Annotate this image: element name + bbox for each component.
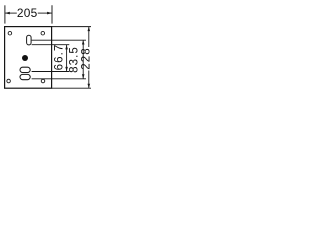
dimension 205 extension left [4, 5, 6, 23]
feature line stadium 1 [32, 71, 70, 73]
dimension 205 line right segment [38, 12, 52, 14]
hole top-left [8, 31, 12, 35]
center knockout dot [22, 55, 28, 61]
slot stadium 1 [20, 67, 30, 72]
arrow 205 right [47, 12, 52, 15]
svg-text:83.5: 83.5 [68, 46, 80, 73]
svg-text:228: 228 [81, 47, 93, 70]
arrow 205 left [5, 12, 10, 15]
feature line slot center [32, 39, 86, 41]
hole top-right [41, 31, 45, 35]
dimension 66.7 line [66, 45, 68, 72]
slot stadium 2 [20, 74, 30, 79]
arrow 228 top [88, 27, 91, 31]
vertical slot [27, 35, 32, 45]
dimension 228 line upper segment [88, 27, 90, 47]
dimension 205 line left segment [5, 12, 17, 14]
arrow 228 bottom [88, 84, 91, 88]
feature line stadium 2 [32, 78, 86, 80]
feature line slot bottom [32, 44, 70, 46]
arrow 83.5 bottom [82, 74, 85, 78]
extension line bottom edge right [52, 87, 91, 89]
extension line top edge right [52, 26, 91, 28]
dimension 83.5 line [82, 40, 84, 79]
hole bottom-left [7, 79, 11, 83]
arrow 66.7 top [65, 45, 68, 49]
dimension 205 extension right [51, 5, 53, 23]
mounting plate outline [5, 27, 52, 89]
background [0, 0, 100, 100]
arrow 66.7 bottom [65, 67, 68, 71]
svg-text:205: 205 [17, 6, 38, 20]
hole bottom-right [41, 79, 45, 83]
arrow 83.5 top [82, 40, 85, 44]
dimension 228 line lower segment [88, 71, 90, 89]
svg-text:66.7: 66.7 [54, 44, 66, 71]
